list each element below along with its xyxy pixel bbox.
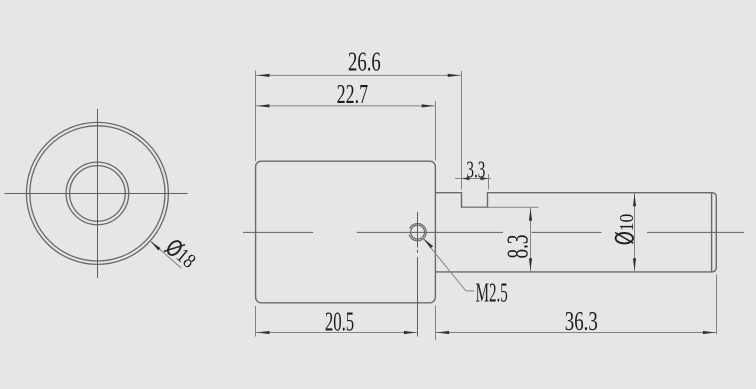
8.3 up / down	[529, 208, 532, 221]
Ø18 leader arrow	[150, 241, 160, 251]
dim line 36.3	[436, 332, 717, 334]
ext line 36.3 right	[716, 274, 718, 334]
ext line 3.3 right	[488, 174, 490, 190]
dim line 22.7	[256, 105, 436, 107]
dim line 20.5	[256, 332, 418, 334]
Ø10 up / down	[633, 194, 636, 207]
ext line 20.5 left	[255, 306, 257, 337]
front view vertical centerline	[97, 109, 99, 278]
dim line Ø10	[634, 193, 636, 272]
dim line 8.3	[530, 207, 532, 272]
hole vertical centerline	[417, 212, 419, 248]
M2.5 leader arrow	[424, 239, 433, 249]
ext line 26.6 right	[461, 71, 463, 190]
front view bore chamfer circle	[70, 166, 126, 222]
shaft end chamfer line	[711, 193, 713, 271]
leader Ø18	[150, 241, 181, 268]
front view chamfer circle	[30, 126, 165, 261]
ext line 36.3 left	[435, 306, 437, 341]
3.3 arrows	[462, 177, 470, 181]
22.7 left / right	[257, 104, 270, 107]
svg-text:8.3: 8.3	[500, 235, 535, 259]
svg-text:20.5: 20.5	[325, 307, 354, 337]
svg-text:10: 10	[617, 214, 638, 232]
ext line 22.7 right	[435, 101, 437, 161]
svg-text:36.3: 36.3	[565, 306, 598, 336]
front view outer circle Ø18	[26, 122, 168, 264]
dim line 26.6	[256, 74, 462, 76]
front view horizontal centerline	[5, 193, 188, 195]
label Ø18: diameter symbol	[164, 237, 185, 259]
M2.5 hole minor circle	[411, 225, 425, 239]
label Ø18 (rotated): digits	[162, 236, 199, 272]
svg-text:3.3: 3.3	[466, 158, 485, 184]
shaft outline with notch	[435, 193, 716, 272]
M2.5 hole major arc	[409, 223, 426, 240]
body outline	[256, 161, 436, 303]
20.5 left / right	[257, 331, 270, 334]
svg-text:M2.5: M2.5	[476, 277, 508, 307]
26.6 left / right	[257, 74, 270, 77]
ext line 26.6/22.7 left	[255, 70, 257, 161]
svg-text:26.6: 26.6	[348, 47, 381, 77]
svg-text:22.7: 22.7	[337, 79, 369, 109]
dim text Ø10: diameter symbol	[615, 233, 633, 244]
ext line 8.3 top	[462, 206, 539, 208]
leader M2.5	[424, 239, 475, 291]
dim line 3.3	[455, 178, 491, 180]
shaft horizontal centerline segments	[243, 231, 313, 233]
36.3 left / right	[437, 331, 450, 334]
front view bore circle	[66, 162, 129, 225]
